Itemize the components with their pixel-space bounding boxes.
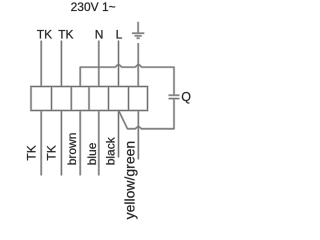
wire TK2 top (terminal 2 to TK label) bbox=[60, 41, 62, 87]
wire blue (motor lead) bbox=[98, 111, 100, 176]
svg-text:yellow/green: yellow/green bbox=[121, 141, 137, 220]
wire yellow/green (motor earth lead) bbox=[137, 111, 139, 160]
wire L top (terminal 5 to L label) bbox=[118, 41, 120, 87]
svg-text:TK: TK bbox=[45, 145, 59, 160]
wire PE top (terminal 6 to ground) bbox=[137, 43, 139, 87]
svg-text:TK: TK bbox=[58, 27, 73, 41]
wire N top (terminal 4 to N label) bbox=[98, 41, 100, 87]
terminal block X1 (6 terminals) bbox=[31, 87, 148, 111]
svg-text:blue: blue bbox=[85, 142, 99, 165]
svg-text:TK: TK bbox=[37, 27, 52, 41]
wire black (motor lead) bbox=[118, 111, 120, 158]
svg-text:black: black bbox=[103, 136, 117, 165]
wire capacitor bottom to terminal 5, hops over yellow/green wire bbox=[119, 99, 174, 129]
wire brown (motor lead) bbox=[79, 111, 81, 176]
svg-text:L: L bbox=[116, 27, 123, 41]
svg-text:N: N bbox=[95, 27, 104, 41]
wire TK2 bottom (motor thermal contact) bbox=[60, 111, 62, 176]
wire terminal 3 to capacitor top, hops over L and PE wires bbox=[80, 64, 174, 95]
svg-text:brown: brown bbox=[65, 133, 79, 166]
svg-text:230V 1~: 230V 1~ bbox=[71, 0, 116, 14]
capacitor Q bbox=[169, 95, 180, 98]
wire TK1 bottom (motor thermal contact) bbox=[40, 111, 42, 176]
svg-text:TK: TK bbox=[25, 145, 39, 160]
wire TK1 top (terminal 1 to TK label) bbox=[40, 41, 42, 87]
ground (protective earth symbol) bbox=[132, 22, 144, 38]
svg-text:Q: Q bbox=[181, 90, 191, 104]
